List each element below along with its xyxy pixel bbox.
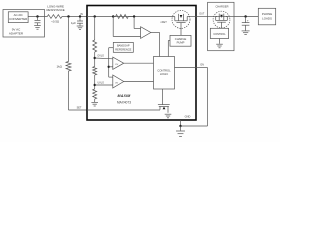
svg-text:CONTROL: CONTROL bbox=[157, 68, 171, 72]
transistor Q3 (phone FET) bbox=[213, 11, 230, 28]
wire sense left to CSA bbox=[112, 17, 114, 37]
svg-text:LOADS: LOADS bbox=[262, 16, 272, 20]
wire control to Q2 gate bbox=[162, 89, 164, 105]
resistor R_wire (long-wire resistance) bbox=[47, 15, 62, 19]
node adapter output bbox=[36, 15, 38, 17]
resistor R_sense bbox=[116, 15, 129, 19]
wire sense right to CSA bbox=[133, 17, 135, 29]
svg-text:RESISTANCE: RESISTANCE bbox=[46, 8, 64, 12]
comparator UV bbox=[113, 75, 124, 88]
svg-text:GND: GND bbox=[185, 114, 191, 118]
capacitor C2 (phone bulk) bbox=[245, 17, 247, 23]
ground (adapter cap) bbox=[34, 25, 41, 27]
AC-DC converter box U0 bbox=[8, 12, 28, 23]
wire GND pin bbox=[180, 120, 182, 126]
IC boundary box bbox=[87, 6, 196, 121]
wire OUT to phone bbox=[196, 16, 208, 18]
ground (phone control) bbox=[219, 39, 221, 44]
node sense left bbox=[112, 15, 114, 17]
node sense right bbox=[133, 15, 135, 17]
ground (C2) bbox=[242, 30, 250, 32]
op-amp CSA (current sense) bbox=[141, 27, 151, 39]
wire Q1 gate to charge pump bbox=[180, 23, 182, 36]
svg-text:SET: SET bbox=[77, 107, 82, 110]
node UVLO bbox=[94, 84, 96, 86]
svg-text:REFERENCE: REFERENCE bbox=[115, 47, 131, 51]
ground (Q2 source) bbox=[165, 113, 172, 115]
node GND external bbox=[179, 125, 181, 127]
svg-text:PHONE: PHONE bbox=[262, 12, 272, 16]
svg-text:OV: OV bbox=[115, 64, 119, 66]
wire OV out bbox=[124, 62, 154, 64]
node divider top bbox=[94, 15, 96, 17]
svg-text:<0.5Ω: <0.5Ω bbox=[51, 20, 60, 24]
svg-text:CONTROL: CONTROL bbox=[213, 33, 226, 36]
node RSET tap bbox=[67, 15, 69, 17]
svg-text:BANDGAP: BANDGAP bbox=[117, 44, 130, 48]
wire Q1 drain out bbox=[187, 16, 196, 18]
svg-text:nFET: nFET bbox=[161, 21, 168, 24]
wall adapter outer box bbox=[3, 10, 45, 38]
wire control to EN pin bbox=[175, 67, 197, 69]
divider: resistor R1 bbox=[94, 17, 96, 41]
wire adapter output bbox=[28, 16, 47, 18]
capacitor C0 (adapter output) bbox=[37, 17, 39, 21]
phone charger dashed/solid box bbox=[208, 2, 234, 50]
wire to IC IN bbox=[62, 16, 87, 18]
resistor R2 bbox=[93, 67, 97, 75]
svg-text:CHARGER: CHARGER bbox=[216, 5, 229, 9]
charge pump box bbox=[170, 35, 191, 46]
control logic box bbox=[154, 57, 175, 90]
wire CSA out to control logic bbox=[151, 32, 160, 34]
ground (C1) bbox=[77, 25, 84, 27]
svg-text:1µF: 1µF bbox=[71, 21, 76, 25]
wire bandgap to comparators bbox=[109, 47, 114, 49]
ground (divider) bbox=[91, 101, 98, 103]
wire through charger bbox=[208, 16, 217, 18]
transistor Q1 pass nFET bbox=[172, 10, 190, 28]
svg-text:UV: UV bbox=[115, 82, 119, 84]
svg-text:OVLO: OVLO bbox=[97, 55, 104, 58]
wire RSET to SET pin bbox=[68, 71, 70, 110]
node bandgap rail bbox=[108, 66, 110, 68]
transistor Q2 (SET switch) bbox=[158, 104, 170, 106]
resistor R3 bbox=[93, 89, 97, 99]
svg-text:EN: EN bbox=[201, 64, 205, 67]
wire Q3 gate to control bbox=[221, 22, 223, 28]
svg-text:OUT: OUT bbox=[199, 13, 205, 16]
node OVLO bbox=[94, 57, 96, 59]
svg-text:CHARGE: CHARGE bbox=[175, 37, 187, 41]
svg-text:MAX4073: MAX4073 bbox=[117, 100, 131, 104]
node phone input bbox=[244, 15, 246, 17]
bandgap reference box bbox=[113, 42, 133, 52]
svg-text:UVLO: UVLO bbox=[97, 82, 104, 85]
svg-text:IN: IN bbox=[80, 12, 83, 16]
capacitor C1 1µF bbox=[79, 17, 81, 22]
wire to phone loads bbox=[234, 16, 258, 18]
wire IN inside IC bbox=[87, 16, 175, 18]
wire UVLO tap to comparator bbox=[95, 84, 113, 86]
svg-text:AC-DC: AC-DC bbox=[14, 13, 23, 17]
svg-text:MAXIM: MAXIM bbox=[118, 94, 132, 98]
comparator OV bbox=[113, 57, 124, 69]
wire Q2 drain to SET bbox=[87, 109, 160, 111]
svg-text:9V AC: 9V AC bbox=[12, 28, 21, 32]
svg-text:CONVERTER: CONVERTER bbox=[9, 17, 27, 21]
ground (GND pin) bbox=[180, 126, 182, 131]
svg-text:LOGIC: LOGIC bbox=[160, 72, 168, 76]
wire UV out bbox=[124, 81, 154, 83]
svg-text:ADAPTER: ADAPTER bbox=[9, 32, 24, 36]
control box (phone) bbox=[210, 28, 228, 38]
phone loads box bbox=[258, 8, 275, 25]
wire OVLO tap to comparator bbox=[95, 57, 113, 60]
svg-text:PUMP: PUMP bbox=[177, 41, 185, 45]
resistor R_SET 1kΩ bbox=[68, 17, 70, 62]
wire charge pump to control logic bbox=[168, 40, 170, 42]
node IN bbox=[79, 15, 81, 17]
svg-text:+: + bbox=[247, 19, 249, 23]
svg-text:1kΩ: 1kΩ bbox=[57, 65, 63, 69]
